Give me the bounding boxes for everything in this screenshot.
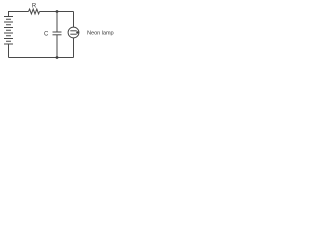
wire top: [9, 12, 74, 17]
label Neon lamp: [87, 31, 114, 37]
neon lamp gas dot: [76, 31, 78, 33]
wire battery to bottom: [8, 44, 10, 58]
capacitor C: [53, 12, 62, 58]
label C: [44, 32, 49, 38]
node junction bottom: [56, 56, 59, 59]
svg-text:Neon lamp: Neon lamp: [87, 31, 114, 37]
resistor R: [29, 9, 40, 14]
wire right to lamp: [73, 12, 75, 58]
svg-text:R: R: [32, 4, 37, 10]
neon lamp V1: [68, 27, 79, 38]
svg-text:C: C: [44, 32, 49, 38]
wire bottom: [9, 57, 74, 59]
battery B1: [4, 17, 13, 45]
node junction top: [56, 10, 59, 13]
label R: [32, 4, 37, 10]
